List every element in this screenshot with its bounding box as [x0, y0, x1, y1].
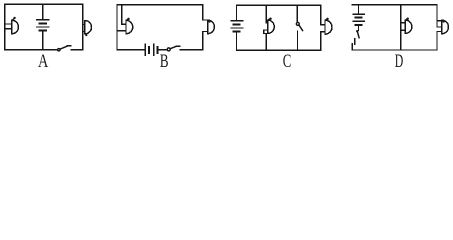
svg-text:B: B — [160, 52, 169, 71]
electric bell HD1 (circuit D middle branch) — [401, 18, 412, 34]
circuit D outer loop wire — [352, 5, 437, 50]
electric bell HB1 (circuit B left, hangs from top edge) — [117, 5, 133, 34]
switch S (circuit B bottom edge) — [167, 46, 180, 51]
battery G2 (circuit B bottom edge, horizontal, 2 cells) — [145, 44, 157, 55]
electric bell HB2 (circuit B right edge) — [203, 20, 215, 34]
electric bell HC2 (circuit C right edge) — [321, 18, 332, 35]
switch S (circuit D left side, vertical) — [355, 30, 360, 44]
circuit C outer loop wire — [237, 5, 321, 50]
electric bell HC1 (circuit C middle branch) — [264, 18, 275, 34]
battery G4 (circuit D, vertical, top-left) — [353, 5, 364, 31]
circuit B outer loop wire — [117, 5, 203, 50]
branch wire (circuit D middle) — [400, 5, 402, 50]
branch wire (circuit C, bell branch) — [264, 5, 267, 50]
electric bell HA2 (circuit A right edge) — [83, 21, 92, 37]
svg-text:D: D — [395, 52, 404, 71]
electric bell HD2 (circuit D right edge) — [437, 20, 448, 34]
circuit A outer loop wire — [5, 4, 83, 50]
svg-text:A: A — [38, 52, 49, 71]
electric bell HA1 (circuit A left edge) — [5, 17, 19, 34]
battery G1 (circuit A, vertical, 2 cells) — [37, 4, 49, 50]
branch wire (circuit C, switch branch) — [296, 5, 298, 50]
battery G3 (circuit C left edge, vertical, 2 cells) — [231, 21, 243, 32]
switch S (circuit A bottom edge) — [58, 46, 71, 51]
svg-text:C: C — [283, 52, 292, 71]
switch S (circuit C middle branch, vertical) — [296, 22, 302, 30]
